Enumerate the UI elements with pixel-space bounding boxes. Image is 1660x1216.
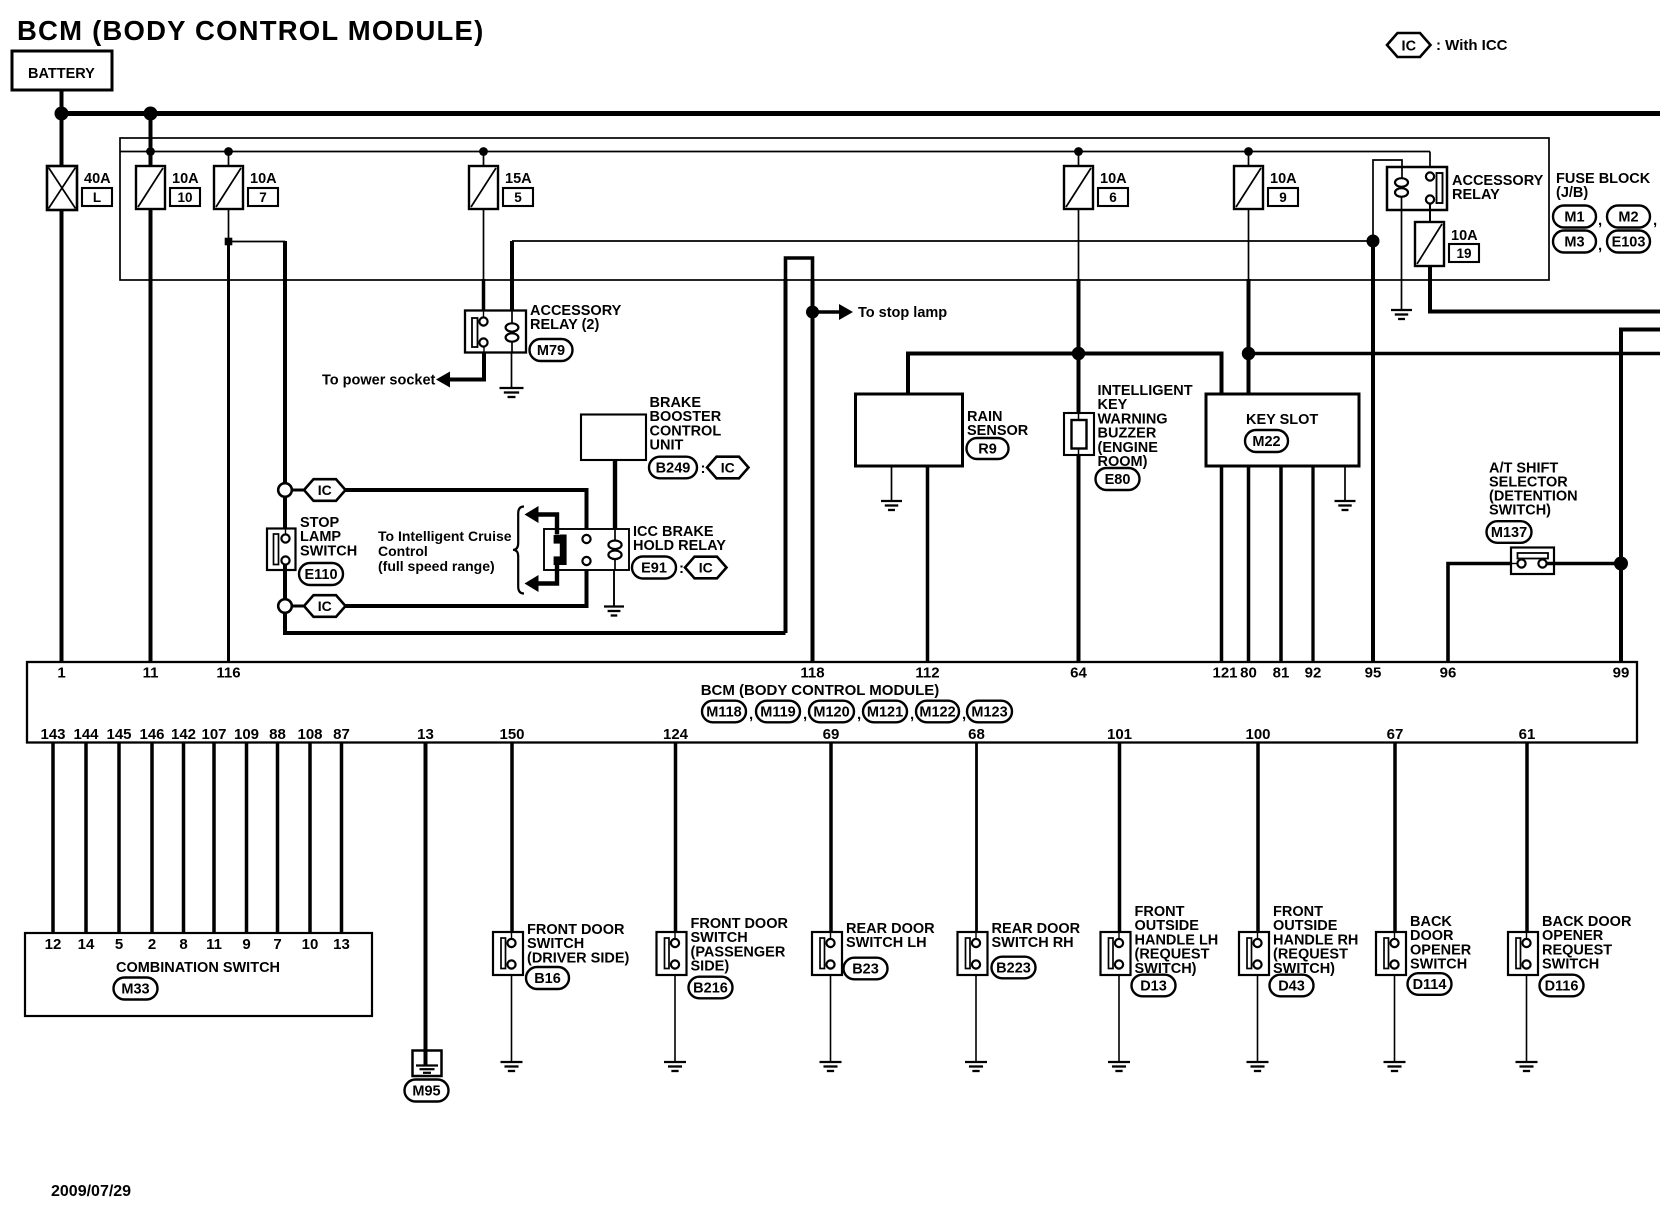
connector R9	[967, 438, 1009, 459]
svg-text:10A: 10A	[1451, 228, 1478, 244]
switch B23	[812, 932, 842, 975]
key slot box	[1206, 394, 1359, 466]
svg-text:19: 19	[1456, 246, 1471, 261]
wire inner bus bend down to accessory relay	[1429, 152, 1431, 173]
wire BCM pin 13 to body ground M95	[424, 743, 428, 1066]
wire inner bus down to fuse 6	[1078, 152, 1080, 167]
connector M121	[863, 701, 907, 723]
wire BCM pin 142 to combination switch pin 8	[182, 743, 186, 934]
svg-text:64: 64	[1070, 665, 1087, 682]
svg-text:10A: 10A	[250, 171, 277, 187]
connector B216	[689, 977, 733, 999]
wire switch B23 to ground	[830, 975, 832, 1061]
svg-text:SWITCH LH: SWITCH LH	[846, 935, 927, 951]
svg-text:IC: IC	[721, 460, 735, 476]
switch D13	[1101, 932, 1131, 975]
connector M95	[405, 1080, 449, 1102]
wire BCM to switch D43	[1256, 743, 1260, 933]
svg-text:12: 12	[45, 936, 62, 953]
svg-text:61: 61	[1519, 726, 1536, 743]
svg-text:10A: 10A	[1270, 171, 1297, 187]
wire accessory relay to fuse 19	[1429, 204, 1431, 223]
svg-text:92: 92	[1305, 665, 1322, 682]
ground D13	[1108, 1062, 1130, 1071]
wire A/T switch right to pin99 line	[1547, 562, 1621, 566]
svg-text:146: 146	[139, 726, 164, 743]
accessory relay box	[1387, 167, 1447, 210]
IC hexagon E91	[685, 557, 727, 579]
wire switch D114 to ground	[1394, 975, 1396, 1061]
junction dot bus/fuse10 feed	[144, 107, 158, 121]
junction dot inner bus x228	[224, 147, 233, 156]
wire x812 down to BCM pin 118	[811, 279, 815, 661]
svg-text:116: 116	[216, 665, 240, 682]
wire switch B223 to ground	[975, 975, 977, 1061]
wire BCM pin 107 to combination switch pin 11	[212, 743, 216, 934]
brake booster control unit box	[581, 415, 646, 461]
svg-text:11: 11	[143, 665, 159, 682]
svg-text:,: ,	[910, 706, 914, 723]
sub bus wire y241	[512, 240, 1373, 242]
wire BCM to switch B216	[674, 743, 678, 933]
fuse 9 (10A)	[1234, 166, 1263, 209]
wire fuse 9 junction down to key slot	[1247, 354, 1251, 395]
wire A/T switch to BCM pin 96	[1511, 563, 1517, 565]
svg-text:(full speed range): (full speed range)	[378, 558, 495, 574]
wire branch to stop lamp circuit	[229, 242, 285, 280]
wire relay2 contact to power socket arrow	[483, 347, 485, 353]
IC junction circle bottom	[278, 599, 292, 613]
ground ICC relay coil	[604, 607, 624, 616]
wire IC junction to stop lamp switch	[283, 497, 287, 529]
fuse block (J/B) box	[120, 138, 1549, 280]
svg-text:10: 10	[177, 190, 192, 205]
svg-text:142: 142	[171, 726, 196, 743]
svg-text:,: ,	[1653, 212, 1657, 229]
svg-text:,: ,	[1598, 212, 1602, 229]
wire sub bus down to accessory relay 2 coil	[510, 241, 514, 311]
svg-text:107: 107	[201, 726, 226, 743]
wire switch B216 to ground	[674, 975, 676, 1061]
ICC brake hold relay box	[544, 529, 629, 570]
svg-text:HOLD RELAY: HOLD RELAY	[633, 538, 726, 554]
fuse 5 (15A)	[469, 166, 498, 209]
connector B249	[649, 457, 697, 479]
wire switch D43 to ground	[1257, 975, 1259, 1061]
connector M79	[530, 339, 573, 361]
wire key slot pin 121	[1220, 466, 1224, 661]
wire B16 to ground	[511, 975, 513, 1061]
wire BCM pin 88 to combination switch pin 7	[276, 743, 280, 934]
connector M2	[1607, 206, 1650, 228]
wire x1373 down to BCM pin 95	[1371, 241, 1375, 661]
stop lamp switch	[267, 529, 296, 571]
accessory relay 2 box	[465, 311, 526, 353]
svg-text:E103: E103	[1612, 235, 1646, 251]
IC hexagon B249	[707, 457, 749, 479]
svg-text:BATTERY: BATTERY	[28, 66, 95, 82]
svg-text:E91: E91	[641, 561, 667, 577]
ICC relay arrow bottom	[537, 565, 558, 584]
accessory relay coil wire to ground	[1401, 197, 1403, 310]
wire brake booster to ICC coil	[613, 460, 617, 529]
svg-text:SIDE): SIDE)	[691, 959, 730, 975]
svg-text:109: 109	[234, 726, 259, 743]
svg-text::: :	[679, 560, 684, 577]
bus wire y353 left segment	[908, 354, 1222, 395]
connector D43	[1270, 975, 1314, 997]
body ground box M95	[413, 1051, 442, 1077]
wire key slot pin 81	[1279, 466, 1283, 661]
wire inner bus down to fuse 7	[228, 152, 230, 167]
connector M3	[1553, 231, 1596, 253]
svg-text:COMBINATION SWITCH: COMBINATION SWITCH	[116, 960, 280, 976]
ground B216	[664, 1062, 686, 1071]
svg-text:SWITCH: SWITCH	[1542, 957, 1599, 973]
connector M123	[967, 701, 1012, 723]
junction dot x1078 y353	[1072, 347, 1085, 360]
wire BCM pin 145 to combination switch pin 5	[117, 743, 121, 934]
switch D43	[1239, 932, 1269, 975]
junction dot x1621 y563	[1614, 557, 1628, 571]
wire rain sensor to ground	[891, 466, 893, 500]
wire BCM pin 108 to combination switch pin 10	[308, 743, 312, 934]
ground accessory relay 2	[500, 388, 524, 397]
svg-text:87: 87	[333, 726, 350, 743]
wire BCM pin 144 to combination switch pin 14	[84, 743, 88, 934]
connector M118	[702, 701, 746, 723]
wire BCM to switch D114	[1393, 743, 1397, 933]
svg-text:M122: M122	[919, 705, 955, 721]
IC hexagon bottom	[292, 605, 304, 608]
wire BCM pin 146 to combination switch pin 2	[150, 743, 154, 934]
wire fuse 9 output	[1248, 209, 1250, 280]
svg-text:To Intelligent Cruise: To Intelligent Cruise	[378, 528, 512, 544]
wire IC to ICC relay contact	[346, 490, 587, 534]
wire switch D116 to ground	[1526, 975, 1528, 1061]
svg-text:E110: E110	[304, 567, 337, 583]
svg-text:68: 68	[968, 726, 985, 743]
svg-text:D43: D43	[1278, 979, 1305, 995]
junction dot inner bus x483	[479, 147, 488, 156]
wire fuse 19 output to right edge	[1430, 266, 1660, 312]
svg-text:B223: B223	[996, 961, 1031, 977]
connector E110	[299, 563, 343, 585]
svg-text:SWITCH): SWITCH)	[1489, 503, 1551, 519]
wire right edge down to BCM pin 99	[1621, 330, 1660, 662]
ground key slot	[1335, 501, 1356, 510]
svg-text:101: 101	[1107, 726, 1132, 743]
intelligent key warning buzzer	[1064, 413, 1094, 455]
svg-text:144: 144	[73, 726, 99, 743]
svg-text:88: 88	[269, 726, 286, 743]
fuse 19 (10A)	[1415, 222, 1444, 266]
connector B23	[844, 958, 888, 980]
accessory relay contact bar	[1437, 173, 1443, 203]
svg-text:95: 95	[1365, 665, 1382, 682]
junction dot to stop lamp	[806, 306, 819, 319]
svg-text:10A: 10A	[172, 171, 199, 187]
connector M120	[809, 701, 854, 723]
svg-text:D13: D13	[1140, 979, 1167, 995]
wire fuse 10 output to BCM pin 11	[149, 209, 153, 661]
battery bus wire	[59, 111, 1660, 116]
ground accessory relay coil	[1391, 310, 1412, 319]
svg-text:8: 8	[179, 936, 187, 953]
ground D114	[1384, 1062, 1406, 1071]
junction square dot fuse7 branch	[225, 238, 233, 246]
wire BCM pin 143 to combination switch pin 12	[51, 743, 55, 934]
svg-text:124: 124	[663, 726, 689, 743]
svg-text:108: 108	[297, 726, 322, 743]
svg-text:,: ,	[1598, 237, 1602, 254]
fuse 10 (10A)	[136, 166, 165, 209]
wire BCM to switch B223	[975, 743, 978, 933]
connector E103	[1607, 231, 1650, 253]
svg-text:IC: IC	[318, 598, 332, 614]
svg-text:Control: Control	[378, 543, 428, 559]
junction dot inner bus x1248	[1244, 147, 1253, 156]
svg-text:143: 143	[40, 726, 65, 743]
wire BCM pin 150 to front door switch driver	[510, 743, 514, 933]
svg-text:2: 2	[148, 936, 156, 953]
svg-text:M3: M3	[1564, 235, 1584, 251]
svg-text:118: 118	[800, 665, 824, 682]
wire relay2 coil to ground	[511, 353, 513, 388]
svg-text:14: 14	[78, 936, 95, 953]
wire fuse 9 to junction y353	[1247, 279, 1251, 354]
battery	[12, 51, 112, 90]
curly brace	[513, 507, 524, 594]
wire ICC coil to ground	[613, 570, 615, 606]
jb notch bridge wire	[786, 258, 813, 280]
wire fuse 5 to accessory relay 2	[482, 279, 486, 311]
svg-text:BCM (BODY CONTROL MODULE): BCM (BODY CONTROL MODULE)	[701, 682, 940, 699]
accessory relay coil	[1395, 178, 1408, 197]
svg-text:13: 13	[333, 936, 350, 953]
wire rain sensor to BCM pin 112	[926, 466, 930, 661]
svg-text:IC: IC	[1402, 39, 1417, 55]
legend IC hexagon : With ICC	[1387, 33, 1508, 57]
inner bus wire in fuse block	[120, 151, 1430, 153]
svg-text:M33: M33	[121, 982, 149, 998]
junction dot x1248 y353	[1242, 347, 1255, 360]
svg-text:121: 121	[1212, 665, 1237, 682]
ICC relay coil	[614, 529, 616, 541]
svg-text:112: 112	[915, 665, 939, 682]
connector E80	[1096, 468, 1140, 490]
svg-text:(J/B): (J/B)	[1556, 185, 1588, 201]
svg-text:9: 9	[242, 936, 250, 953]
BCM (body control module) box	[27, 662, 1637, 743]
fusible link 40A L	[47, 166, 77, 210]
svg-text:10: 10	[302, 936, 319, 953]
wire key slot ground	[1344, 466, 1346, 500]
svg-text:D114: D114	[1413, 977, 1447, 993]
ground D43	[1247, 1062, 1269, 1071]
IC hexagon top	[292, 489, 304, 492]
combination switch box	[25, 933, 372, 1016]
svg-text:SWITCH RH: SWITCH RH	[992, 935, 1074, 951]
connector B223	[992, 957, 1036, 979]
accessory relay coil feed wire	[1373, 160, 1402, 241]
ground D116	[1516, 1062, 1538, 1071]
junction dot inner bus x150	[146, 147, 155, 156]
svg-text:7: 7	[259, 190, 267, 205]
connector M122	[916, 701, 959, 723]
switch B216	[657, 932, 687, 975]
svg-text:13: 13	[417, 726, 434, 743]
wire x785 down to ICC loop	[784, 279, 788, 633]
junction dot inner bus x1078	[1074, 147, 1083, 156]
svg-text:69: 69	[823, 726, 840, 743]
switch D114	[1376, 932, 1406, 975]
ground B23	[820, 1062, 842, 1071]
svg-text:81: 81	[1273, 665, 1290, 682]
wire IC bottom to ICC relay contact	[346, 565, 587, 606]
wire fuse 6 output	[1078, 209, 1080, 280]
connector M33	[114, 978, 158, 1000]
svg-text:5: 5	[115, 936, 123, 953]
wire x285 down to IC junction	[283, 241, 287, 484]
svg-text:D116: D116	[1545, 979, 1579, 995]
svg-text:To power socket: To power socket	[322, 373, 436, 389]
front door switch driver side	[493, 932, 523, 975]
svg-text:2009/07/29: 2009/07/29	[51, 1183, 131, 1200]
accessory relay contact pins	[1426, 172, 1434, 180]
wire fuse 7 output	[228, 209, 230, 242]
svg-text:IC: IC	[318, 482, 332, 498]
svg-text:,: ,	[962, 706, 966, 723]
svg-text:: With ICC: : With ICC	[1436, 37, 1508, 54]
svg-text:B249: B249	[656, 461, 691, 477]
svg-text:67: 67	[1387, 726, 1404, 743]
svg-text:6: 6	[1109, 190, 1117, 205]
wire inner bus down to fuse 5	[483, 152, 485, 167]
svg-text:150: 150	[499, 726, 524, 743]
connector E91	[632, 557, 676, 579]
to stop lamp arrow	[813, 310, 842, 313]
svg-text:M95: M95	[412, 1084, 440, 1100]
svg-text::: :	[701, 460, 706, 477]
ICC relay arrow top	[537, 515, 558, 535]
svg-text:L: L	[93, 190, 101, 205]
connector D13	[1132, 975, 1176, 997]
svg-text:B23: B23	[852, 962, 879, 978]
wire fuse6 to BCM pin 64 through buzzer	[1077, 354, 1081, 662]
svg-text:SWITCH: SWITCH	[1410, 957, 1467, 973]
wire BCM pin 109 to combination switch pin 9	[245, 743, 249, 934]
connector M1	[1553, 206, 1596, 228]
svg-text:11: 11	[206, 936, 222, 953]
svg-text:M121: M121	[867, 705, 903, 721]
IC junction circle top	[278, 483, 292, 497]
wire inner bus down to fuse 9	[1248, 152, 1250, 167]
ground rain sensor	[881, 501, 902, 510]
wire stop lamp switch to IC junction bottom	[283, 565, 287, 601]
svg-text:10A: 10A	[1100, 171, 1127, 187]
ICC relay contact pins	[582, 535, 590, 543]
svg-text:96: 96	[1440, 665, 1457, 682]
svg-text:7: 7	[273, 936, 281, 953]
wire switch D13 to ground	[1118, 975, 1120, 1061]
ground B223	[965, 1062, 987, 1071]
wire ICC loop bottom	[285, 613, 786, 633]
svg-text:BCM (BODY CONTROL MODULE): BCM (BODY CONTROL MODULE)	[17, 15, 484, 46]
wire BCM to switch B23	[829, 743, 833, 933]
svg-text:5: 5	[514, 190, 522, 205]
connector M119	[756, 701, 800, 723]
svg-text:99: 99	[1613, 665, 1630, 682]
svg-text:E80: E80	[1105, 472, 1131, 488]
svg-text:,: ,	[803, 706, 807, 723]
ground B16	[501, 1062, 523, 1071]
svg-text:M118: M118	[706, 705, 741, 721]
svg-text:RELAY (2): RELAY (2)	[530, 317, 599, 333]
svg-text:M79: M79	[537, 343, 565, 359]
switch D116	[1508, 932, 1538, 975]
svg-text:UNIT: UNIT	[650, 438, 684, 454]
wire BCM to switch D116	[1525, 743, 1529, 933]
connector B16	[526, 967, 569, 989]
wire bus to fuse 10	[149, 114, 153, 167]
svg-text:B216: B216	[693, 981, 728, 997]
svg-text:(DRIVER SIDE): (DRIVER SIDE)	[527, 950, 629, 966]
accessory relay 2 contact pins	[483, 311, 485, 318]
to power socket arrow head	[436, 372, 450, 388]
wire fuse 5 output	[483, 209, 485, 280]
svg-text:M2: M2	[1618, 210, 1638, 226]
svg-text:KEY SLOT: KEY SLOT	[1246, 412, 1318, 428]
svg-text:RELAY: RELAY	[1452, 187, 1500, 203]
wire key slot pin 92	[1311, 466, 1314, 661]
svg-text:M137: M137	[1491, 525, 1527, 541]
wire fuse7 down to BCM pin 116	[227, 242, 230, 662]
wire fuse 6 to junction y353	[1077, 279, 1081, 354]
wire BCM pin 87 to combination switch pin 13	[340, 743, 344, 934]
svg-text:1: 1	[57, 665, 65, 682]
accessory relay 2 coil	[511, 311, 513, 324]
accessory relay 2 contact bar	[472, 318, 478, 347]
svg-text:IC: IC	[699, 560, 713, 576]
svg-text:SWITCH: SWITCH	[300, 543, 357, 559]
connector M22	[1245, 430, 1288, 452]
svg-text:,: ,	[857, 706, 861, 723]
junction dot sub bus x1373	[1367, 235, 1380, 248]
wire battery down to BCM pin 1	[60, 90, 64, 661]
svg-text:9: 9	[1279, 190, 1287, 205]
fuse 6 (10A)	[1064, 166, 1093, 209]
svg-text:M123: M123	[971, 705, 1007, 721]
wire key slot pin 80	[1247, 466, 1251, 661]
connector M137	[1487, 521, 1532, 543]
svg-text:15A: 15A	[505, 171, 532, 187]
svg-text:145: 145	[106, 726, 131, 743]
svg-text:B16: B16	[534, 971, 561, 987]
junction dot battery/bus	[55, 107, 69, 121]
svg-text:100: 100	[1245, 726, 1270, 743]
A/T detention switch box	[1511, 548, 1554, 575]
svg-text:,: ,	[749, 706, 753, 723]
rain sensor box	[856, 394, 963, 466]
bus wire y353 right segment	[1249, 352, 1660, 356]
switch B223	[958, 932, 988, 975]
svg-text:M119: M119	[760, 705, 795, 721]
connector D116	[1540, 975, 1584, 997]
svg-text:To stop lamp: To stop lamp	[858, 305, 947, 321]
svg-text:40A: 40A	[84, 171, 111, 187]
svg-text:R9: R9	[978, 442, 997, 458]
